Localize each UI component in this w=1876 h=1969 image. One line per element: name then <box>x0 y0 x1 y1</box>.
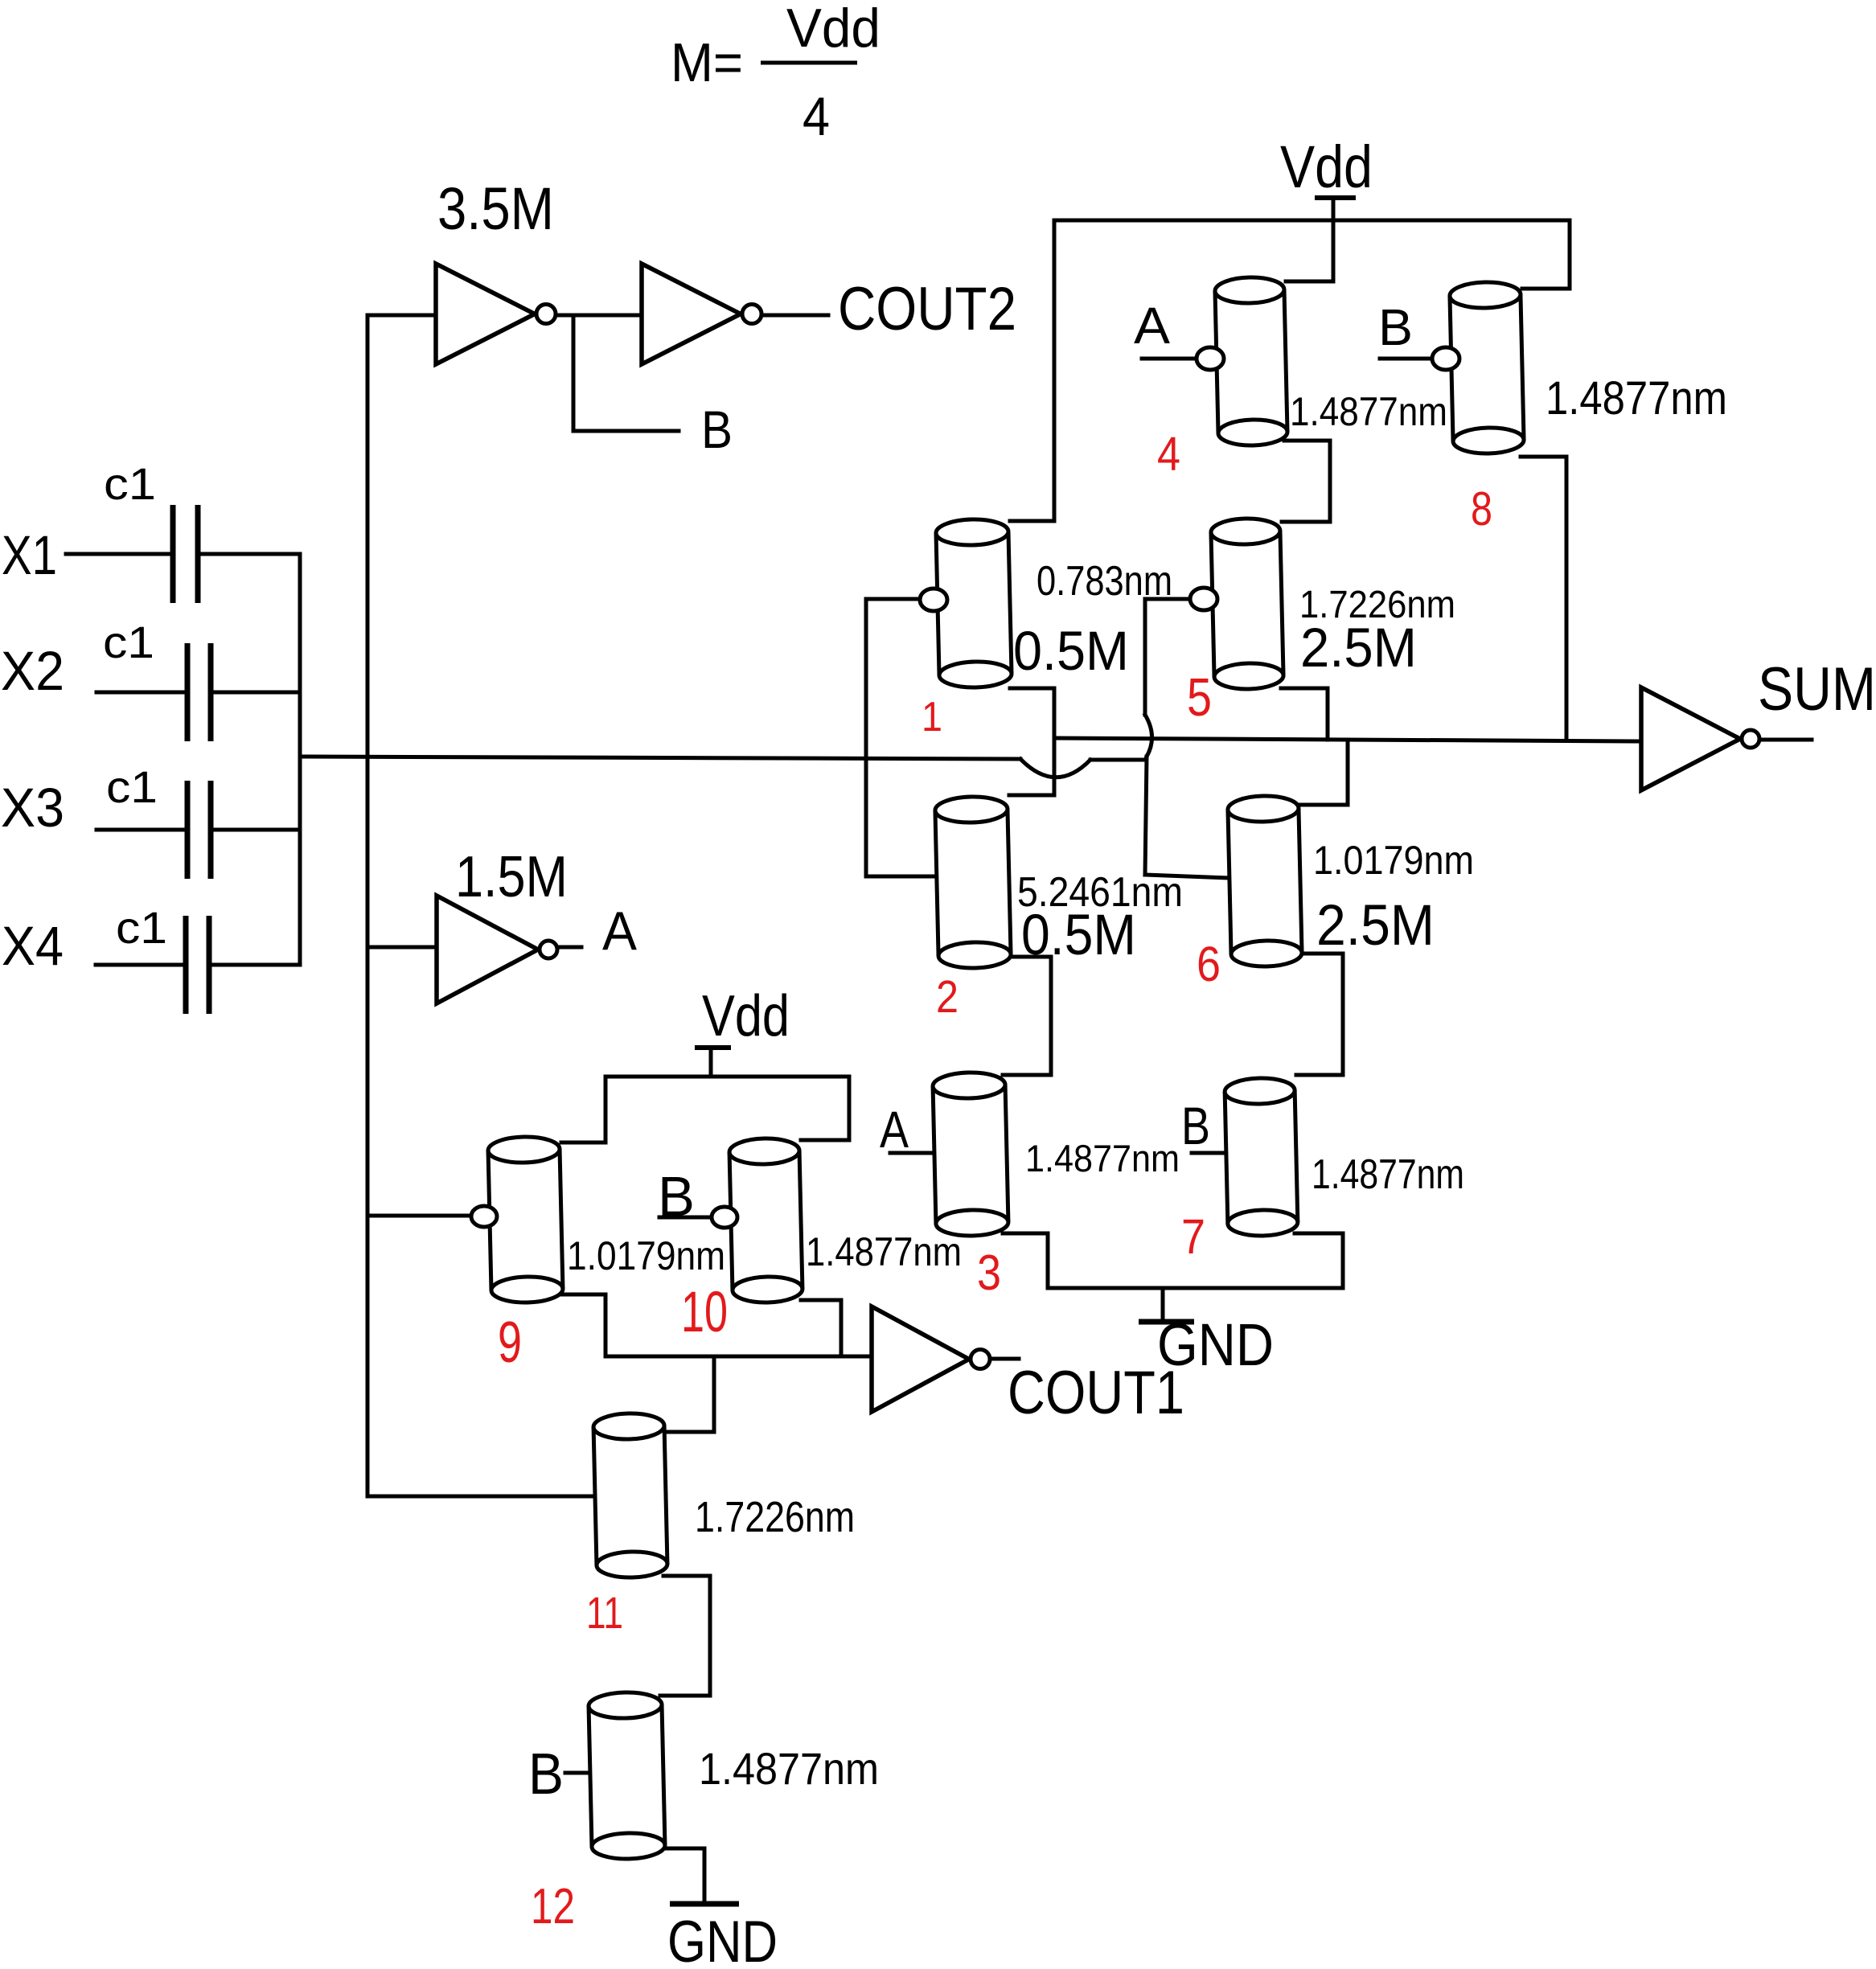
svg-text:1.4877nm: 1.4877nm <box>1290 389 1447 434</box>
svg-text:B: B <box>701 400 733 459</box>
svg-text:0.5M: 0.5M <box>1013 620 1129 682</box>
svg-text:B: B <box>658 1165 695 1228</box>
svg-text:1.5M: 1.5M <box>455 845 568 909</box>
svg-text:Vdd: Vdd <box>1280 133 1373 200</box>
svg-text:Vdd: Vdd <box>702 984 790 1048</box>
svg-text:2.5M: 2.5M <box>1316 894 1435 958</box>
svg-text:1.4877nm: 1.4877nm <box>806 1229 962 1274</box>
svg-text:1.7226nm: 1.7226nm <box>695 1493 855 1541</box>
svg-text:6: 6 <box>1197 937 1221 991</box>
svg-text:4: 4 <box>803 86 830 147</box>
svg-text:COUT1: COUT1 <box>1008 1359 1184 1427</box>
svg-text:B: B <box>1181 1096 1210 1155</box>
svg-text:7: 7 <box>1181 1209 1205 1264</box>
svg-text:11: 11 <box>586 1587 623 1638</box>
svg-text:A: A <box>602 900 638 962</box>
svg-text:M=: M= <box>671 32 743 93</box>
svg-text:4: 4 <box>1157 428 1180 481</box>
svg-text:10: 10 <box>681 1281 728 1344</box>
svg-text:X3: X3 <box>1 777 64 839</box>
svg-text:SUM: SUM <box>1758 655 1876 724</box>
svg-text:8: 8 <box>1471 482 1492 535</box>
svg-text:0.5M: 0.5M <box>1021 904 1136 967</box>
svg-text:1: 1 <box>922 694 942 740</box>
svg-text:3: 3 <box>977 1245 1001 1301</box>
svg-text:c1: c1 <box>116 902 167 953</box>
svg-text:c1: c1 <box>104 458 156 509</box>
svg-text:1.0179nm: 1.0179nm <box>567 1233 725 1278</box>
svg-text:COUT2: COUT2 <box>838 275 1016 343</box>
svg-text:A: A <box>1134 297 1170 355</box>
svg-text:X1: X1 <box>2 524 57 586</box>
svg-text:12: 12 <box>531 1879 575 1934</box>
svg-text:1.4877nm: 1.4877nm <box>699 1743 879 1794</box>
svg-text:0.783nm: 0.783nm <box>1037 558 1172 605</box>
svg-text:5: 5 <box>1187 667 1212 728</box>
svg-text:GND: GND <box>667 1910 778 1969</box>
svg-text:X4: X4 <box>2 915 64 977</box>
svg-text:1.0179nm: 1.0179nm <box>1313 838 1474 883</box>
svg-text:9: 9 <box>498 1311 522 1375</box>
svg-text:c1: c1 <box>106 761 158 812</box>
svg-text:2: 2 <box>936 971 959 1023</box>
svg-text:1.4877nm: 1.4877nm <box>1546 372 1727 425</box>
svg-text:3.5M: 3.5M <box>437 175 554 242</box>
svg-text:Vdd: Vdd <box>786 0 881 59</box>
svg-text:B: B <box>528 1742 564 1807</box>
svg-text:1.4877nm: 1.4877nm <box>1312 1151 1464 1198</box>
svg-text:2.5M: 2.5M <box>1300 617 1417 679</box>
svg-text:c1: c1 <box>103 617 154 667</box>
svg-text:B: B <box>1378 298 1413 356</box>
svg-text:1.4877nm: 1.4877nm <box>1025 1137 1180 1179</box>
svg-text:X2: X2 <box>1 640 64 702</box>
svg-text:A: A <box>880 1101 909 1159</box>
